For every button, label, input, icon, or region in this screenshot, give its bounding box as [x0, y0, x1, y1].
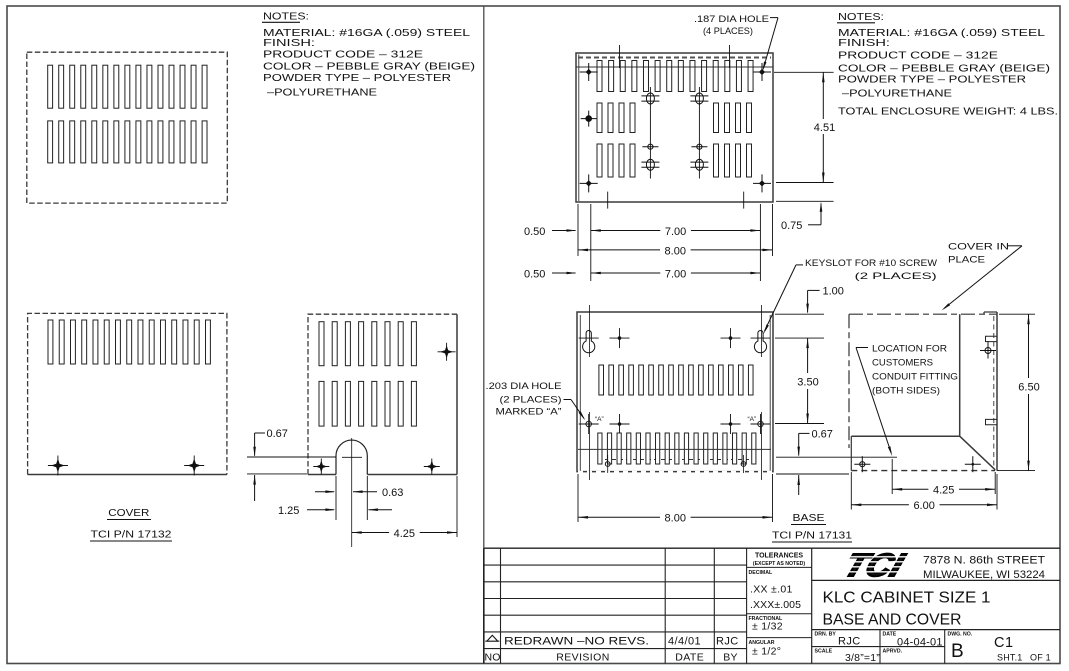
dim 8.00	[578, 249, 773, 251]
side section diagonal	[960, 436, 996, 470]
svg-text:7.00: 7.00	[665, 268, 686, 280]
dim 7.00 lower	[591, 272, 761, 274]
extension lines right of base top	[774, 71, 834, 73]
title block right area lines	[811, 548, 813, 663]
svg-text:C1: C1	[994, 635, 1014, 651]
svg-text:DECIMAL: DECIMAL	[749, 570, 773, 576]
dim 6.00	[850, 472, 852, 510]
extension lines below base front	[577, 474, 579, 522]
extension lines below base top	[577, 204, 579, 256]
svg-text:DATE: DATE	[675, 651, 704, 663]
svg-text:4.51: 4.51	[814, 122, 835, 134]
hole cross marks row1	[610, 337, 630, 339]
svg-text:.203 DIA HOLE: .203 DIA HOLE	[486, 381, 562, 392]
base top bend line	[576, 66, 773, 68]
base top vent slots left group 2	[597, 103, 602, 133]
svg-text:TCI P/N 17131: TCI P/N 17131	[772, 530, 852, 542]
leader cover in place	[1007, 245, 1022, 247]
svg-text:7.00: 7.00	[665, 226, 686, 238]
cover side vent slots row1	[319, 322, 324, 366]
dim 8.00 lower	[578, 516, 773, 518]
svg-text:.XX ±.01: .XX ±.01	[750, 584, 793, 596]
view: cover front outline	[28, 313, 227, 474]
notch center lines	[351, 438, 353, 547]
base top vent slots right group 3	[714, 144, 719, 177]
svg-text:POWDER TYPE – POLYESTER: POWDER TYPE – POLYESTER	[838, 74, 1026, 85]
base front hidden line behind slots	[598, 459, 753, 461]
svg-text:NO: NO	[485, 651, 501, 663]
title block top line	[484, 547, 1060, 549]
svg-text:SCALE: SCALE	[815, 648, 833, 654]
svg-text:.187 DIA HOLE: .187 DIA HOLE	[694, 14, 769, 25]
cover seam lines left	[247, 456, 336, 458]
svg-text:BASE: BASE	[793, 512, 825, 524]
svg-text:(4 PLACES): (4 PLACES)	[703, 26, 753, 37]
base bottom line right	[776, 473, 849, 475]
svg-text:COLOR – PEBBLE GRAY (BEIGE): COLOR – PEBBLE GRAY (BEIGE)	[838, 63, 1050, 74]
svg-text:± 1/2°: ± 1/2°	[752, 646, 781, 658]
svg-text:NOTES:: NOTES:	[838, 12, 884, 23]
small holes bottom flange	[605, 462, 610, 467]
base front mid vent slots	[599, 365, 604, 395]
cover side vent slots row2	[319, 381, 324, 426]
cover side bottom edge with U-notch	[308, 474, 336, 476]
svg-text:REVISION: REVISION	[556, 651, 609, 663]
leader to corner hole	[770, 17, 778, 19]
svg-text:CONDUIT FITTING: CONDUIT FITTING	[872, 372, 958, 383]
view: base front outline	[577, 312, 773, 472]
svg-text:0.63: 0.63	[382, 487, 403, 499]
svg-text:MARKED “A”: MARKED “A”	[496, 406, 562, 417]
fold extension lines top	[619, 45, 621, 68]
svg-text:0.50: 0.50	[524, 268, 545, 280]
cover seam line right	[776, 456, 897, 458]
svg-text:± 1/32: ± 1/32	[752, 621, 783, 633]
svg-text:4.25: 4.25	[394, 528, 415, 540]
svg-text:0.67: 0.67	[267, 428, 288, 440]
svg-text:.XXX±.005: .XXX±.005	[750, 599, 801, 611]
corner hole marks	[580, 71, 598, 73]
svg-text:RJC: RJC	[838, 636, 861, 648]
base front center line right	[761, 305, 763, 357]
base front lower vent slots	[598, 433, 602, 464]
svg-text:(BOTH SIDES): (BOTH SIDES)	[872, 386, 940, 397]
svg-text:(2 PLACES): (2 PLACES)	[500, 394, 562, 405]
extension lines right of base front	[775, 313, 824, 315]
base top hidden edge (dashed)	[578, 57, 771, 59]
cover front hole marks	[48, 465, 68, 467]
leader .203 hole	[564, 399, 572, 401]
svg-text:FINISH:: FINISH:	[263, 38, 315, 49]
svg-text:DATE: DATE	[883, 631, 897, 637]
base front inner flange lines	[579, 315, 581, 471]
base top center line left	[649, 87, 651, 179]
svg-text:1.25: 1.25	[278, 505, 299, 517]
svg-text:–POLYURETHANE: –POLYURETHANE	[267, 87, 377, 98]
leader keyslot	[796, 264, 803, 266]
svg-text:REDRAWN –NO REVS.: REDRAWN –NO REVS.	[504, 636, 649, 648]
dim 3.50	[807, 338, 809, 423]
svg-text:CUSTOMERS: CUSTOMERS	[872, 358, 933, 369]
view: base top panel outline	[576, 53, 773, 202]
svg-text:RJC: RJC	[716, 636, 739, 648]
svg-text:3/8”=1”: 3/8”=1”	[845, 652, 880, 664]
svg-text:“A”: “A”	[748, 416, 757, 423]
view: side section cover outline dashed	[849, 313, 997, 315]
side section base rear panel	[959, 314, 961, 436]
svg-text:COLOR – PEBBLE GRAY (BEIGE): COLOR – PEBBLE GRAY (BEIGE)	[263, 61, 475, 72]
svg-text:DRN. BY: DRN. BY	[815, 631, 837, 637]
base front bottom hidden edge dashes	[578, 471, 772, 473]
fold tick marks bottom	[607, 192, 609, 209]
base top vent slots left group 3	[597, 144, 602, 177]
svg-text:PLACE: PLACE	[948, 255, 985, 266]
svg-text:COVER IN: COVER IN	[948, 242, 1009, 253]
side hole marks	[980, 350, 996, 352]
svg-text:MILWAUKEE, WI 53224: MILWAUKEE, WI 53224	[923, 569, 1045, 581]
keyslot right	[754, 331, 766, 353]
base top inner flange line	[578, 55, 580, 202]
base top vent slots row 1	[597, 61, 602, 92]
svg-text:KEYSLOT FOR #10 SCREW: KEYSLOT FOR #10 SCREW	[805, 258, 937, 269]
side section left flange	[850, 436, 852, 470]
svg-text:7878 N. 86th STREET: 7878 N. 86th STREET	[923, 555, 1045, 567]
revision triangle marker	[485, 635, 499, 641]
svg-text:0.50: 0.50	[524, 226, 545, 238]
view: cover side outline	[308, 314, 457, 474]
vertical sheet divider	[483, 6, 485, 548]
cover side hole marks	[438, 351, 456, 353]
revision table rows	[484, 564, 747, 566]
svg-text:TCI P/N 17132: TCI P/N 17132	[91, 529, 172, 541]
svg-text:(2 PLACES): (2 PLACES)	[855, 271, 937, 282]
svg-text:“A”: “A”	[595, 416, 604, 423]
hole symbols on center lines	[646, 93, 654, 104]
svg-text:FINISH:: FINISH:	[838, 38, 890, 49]
svg-text:TOLERANCES: TOLERANCES	[755, 553, 803, 560]
svg-text:TOTAL ENCLOSURE WEIGHT: 4 LBS.: TOTAL ENCLOSURE WEIGHT: 4 LBS.	[838, 106, 1058, 117]
svg-text:PRODUCT CODE – 312E: PRODUCT CODE – 312E	[263, 50, 423, 61]
revision table columns	[483, 548, 485, 663]
dim 4.25 side	[891, 459, 893, 494]
svg-text:4/4/01: 4/4/01	[668, 636, 701, 648]
cover top vent slots row 2	[48, 121, 53, 163]
view: cover top panel outline (dashed)	[27, 52, 228, 203]
svg-text:0.75: 0.75	[781, 220, 802, 232]
svg-text:8.00: 8.00	[665, 245, 686, 257]
svg-text:6.00: 6.00	[913, 500, 934, 512]
svg-text:DWG. NO.: DWG. NO.	[948, 631, 973, 637]
dim 4.25 cover side	[352, 532, 457, 534]
leader conduit location	[856, 347, 868, 349]
svg-text:8.00: 8.00	[665, 513, 686, 525]
svg-text:KLC CABINET SIZE 1: KLC CABINET SIZE 1	[823, 590, 991, 607]
base front center line left	[589, 305, 591, 357]
svg-text:APRVD.: APRVD.	[883, 648, 903, 654]
svg-text:LOCATION FOR: LOCATION FOR	[872, 344, 947, 355]
side hidden line near right edge	[993, 316, 995, 469]
svg-text:3.50: 3.50	[797, 376, 818, 388]
U-notch for cable	[336, 440, 367, 474]
svg-text:1.00: 1.00	[823, 286, 844, 298]
svg-text:(EXCEPT AS NOTED): (EXCEPT AS NOTED)	[753, 561, 806, 567]
dim 0.63	[315, 491, 334, 493]
svg-text:COVER: COVER	[108, 507, 149, 519]
svg-text:PRODUCT CODE – 312E: PRODUCT CODE – 312E	[838, 50, 998, 61]
svg-text:OF 1: OF 1	[1030, 653, 1051, 663]
svg-text:04-04-01: 04-04-01	[897, 637, 943, 649]
svg-text:4.25: 4.25	[933, 485, 954, 497]
base front bend line	[578, 448, 771, 450]
TCI logo	[839, 548, 909, 584]
svg-text:–POLYURETHANE: –POLYURETHANE	[842, 89, 952, 100]
svg-text:B: B	[951, 641, 964, 662]
cover top vent slots row 1	[48, 65, 53, 108]
keyslot left	[583, 331, 595, 353]
dim 7.00 upper	[591, 230, 761, 232]
clip features right panel	[986, 336, 998, 341]
side section bottom hidden edge	[851, 470, 995, 472]
svg-text:0.67: 0.67	[812, 428, 833, 440]
hole marks row2	[579, 423, 599, 425]
svg-text:BASE AND COVER: BASE AND COVER	[823, 612, 962, 629]
notch extension lines	[335, 476, 337, 520]
base top center line right	[698, 87, 700, 179]
cover front vent slots	[48, 320, 53, 364]
base top vent slots right group 2	[714, 103, 719, 133]
side section right edge	[996, 312, 998, 471]
svg-text:6.50: 6.50	[1018, 382, 1039, 394]
svg-text:SHT.1: SHT.1	[997, 653, 1023, 663]
svg-text:BY: BY	[723, 651, 737, 663]
dim 4.51 vertical	[822, 72, 824, 182]
dim 6.50	[999, 313, 1035, 315]
svg-text:POWDER TYPE – POLYESTER: POWDER TYPE – POLYESTER	[263, 73, 451, 84]
svg-text:NOTES:: NOTES:	[263, 12, 309, 23]
